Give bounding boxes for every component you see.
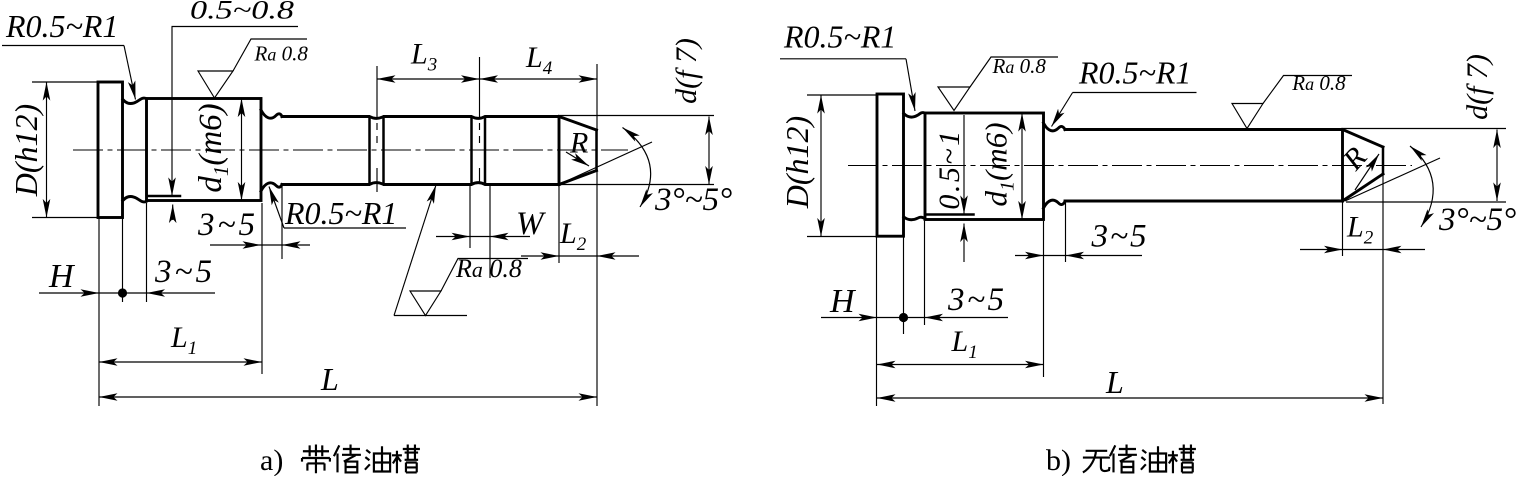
R0.5~R1 middle underline (a)	[284, 227, 406, 229]
R leader arrow (a)	[566, 152, 589, 166]
surface finish symbol Ra0.8 on d1 (b)	[938, 87, 970, 111]
svg-text:b): b)	[1046, 444, 1071, 476]
hanzi cao	[1168, 445, 1196, 474]
relief neck d1/shaft top curve (a)	[261, 110, 282, 118]
svg-text:Ra 0.8: Ra 0.8	[455, 254, 522, 283]
R0.5~R1 underline (b)	[780, 58, 906, 60]
0.5~1 upper arrow line (b)	[963, 115, 965, 214]
hanzi you	[365, 446, 390, 471]
dimension W extension lines (a)	[469, 186, 471, 248]
hanzi chu	[1110, 445, 1137, 473]
svg-text:0.5~1: 0.5~1	[933, 128, 966, 209]
dimension d1 line (a)	[241, 99, 243, 201]
0.5~0.8 lower arrow (a)	[172, 205, 174, 221]
dimension d(f7) line (a)	[708, 117, 710, 185]
svg-text:H: H	[829, 283, 857, 320]
oil groove root line (a)	[148, 195, 181, 198]
svg-text:R0.5~R1: R0.5~R1	[783, 19, 896, 55]
svg-text:L: L	[1105, 364, 1124, 400]
dimension 3~5 at d1/shaft neck (a)	[210, 244, 261, 246]
svg-text:3°~5°: 3°~5°	[1438, 202, 1516, 238]
chamfer start edge (b)	[1341, 130, 1344, 202]
hanzi chu	[334, 445, 361, 473]
dimension D(h12) extension lines (b)	[807, 94, 876, 96]
relief neck d1/shaft bottom curve (b)	[1044, 200, 1066, 208]
R0.5~R1 right leader arrow (b)	[1052, 93, 1073, 127]
dimension d(f7) line (b)	[1496, 130, 1498, 202]
d(f7) top extension line (a)	[559, 115, 714, 117]
0.5~0.8 reference line (a)	[172, 26, 299, 28]
dimension L2 arrows (b)	[1300, 249, 1343, 251]
svg-text:3~5: 3~5	[154, 254, 212, 290]
chamfer end face (b)	[1382, 147, 1385, 174]
chamfer angle arc (a)	[623, 128, 651, 208]
relief neck head/d1 top curve (a)	[123, 98, 147, 103]
R0.5~R1 middle leader arrow (a)	[269, 187, 284, 229]
dimension L3 (a)	[377, 78, 480, 80]
extension line d1-right (b)	[1043, 221, 1045, 377]
d(f7) top extension line (b)	[1343, 128, 1507, 130]
svg-text:D(h12): D(h12)	[8, 104, 44, 197]
hanzi dai	[302, 445, 330, 474]
caption hanzi wu-chu-you-cao (b)	[1083, 445, 1196, 474]
svg-text:D(h12): D(h12)	[779, 116, 815, 209]
extension line head-left (b)	[876, 237, 878, 406]
pin head (a)	[98, 82, 123, 218]
dimension 3~5 arrow at head neck (a)	[147, 292, 216, 294]
extension line groove2 center (a)	[479, 57, 481, 119]
svg-text:Ra 0.8: Ra 0.8	[254, 42, 309, 66]
dimension L4 (a)	[480, 78, 598, 80]
relief neck head/d1 top curve (b)	[904, 113, 925, 117]
0.5~1 lower arrow (b)	[963, 224, 965, 263]
R leader arrow (b)	[1355, 154, 1379, 190]
H measurement dot (b)	[899, 313, 908, 322]
extension line chamfer-start (b)	[1342, 202, 1344, 256]
chamfer top slant (a)	[559, 117, 597, 131]
R0.5~R1 leader arrow (a)	[124, 46, 136, 100]
svg-text:a): a)	[260, 444, 283, 476]
dimension 3~5 at d1/shaft neck (b)	[1015, 255, 1044, 257]
svg-text:L: L	[320, 361, 339, 397]
dimension D(h12) line (b)	[820, 95, 822, 237]
chamfer angle construction line (a)	[561, 142, 652, 184]
svg-text:Ra 0.8: Ra 0.8	[992, 54, 1047, 78]
dimension H line and arrow (a)	[39, 292, 99, 294]
relief neck d1/shaft top curve (b)	[1044, 123, 1066, 131]
svg-text:Ra 0.8: Ra 0.8	[1291, 71, 1346, 95]
extension line shaft-start (b)	[1065, 202, 1067, 262]
d(f7) bottom extension line (b)	[1346, 201, 1506, 203]
extension line d1-left (b)	[924, 221, 926, 325]
chamfer start edge (a)	[558, 117, 561, 185]
caption hanzi dai-chu-you-cao (a)	[302, 445, 420, 474]
dimension L1 (a)	[99, 361, 262, 363]
chamfer top slant (b)	[1343, 130, 1384, 148]
svg-text:R: R	[569, 127, 588, 160]
oil storage groove 2 side lines (a)	[470, 118, 473, 184]
H to 3~5 connecting line (b)	[877, 317, 925, 319]
d1 cylinder section (b)	[925, 113, 1044, 220]
L2 connecting line (a)	[559, 255, 597, 257]
extension line shaft-end (b)	[1382, 147, 1384, 404]
svg-text:3~5: 3~5	[1091, 219, 1147, 255]
svg-text:d(f 7): d(f 7)	[670, 38, 703, 104]
svg-text:3~5: 3~5	[197, 207, 255, 243]
dimension D(h12) line (a)	[46, 82, 48, 218]
d1 cylinder section (a)	[147, 99, 262, 201]
svg-text:d(f 7): d(f 7)	[1461, 54, 1494, 120]
extension line chamfer-start (a)	[558, 186, 560, 263]
oil groove root line (b)	[926, 213, 974, 216]
hanzi wu	[1083, 451, 1110, 473]
hanzi you	[1141, 446, 1166, 471]
dimension L (b)	[877, 397, 1383, 399]
dimension L2 arrows (a)	[521, 255, 559, 257]
shaft top edge with groove dips (a)	[282, 117, 559, 119]
svg-text:3°~5°: 3°~5°	[654, 182, 732, 218]
center line (b)	[848, 165, 1412, 167]
0.5~0.8 leader down to groove root (a)	[171, 27, 173, 197]
svg-text:R0.5~R1: R0.5~R1	[1078, 54, 1191, 90]
svg-text:W: W	[516, 206, 546, 242]
svg-text:R0.5~R1: R0.5~R1	[5, 8, 118, 44]
R0.5~R1 leader arrow (b)	[906, 59, 915, 111]
oil storage groove 1 side lines (a)	[368, 118, 371, 184]
dimension L1 (b)	[877, 364, 1044, 366]
extension line d1-left (a)	[146, 203, 148, 302]
chamfer bottom slant (b)	[1343, 174, 1384, 201]
dimension W arrows (a)	[436, 236, 470, 238]
extension line groove1 center (a)	[376, 66, 378, 119]
center line (a)	[73, 149, 628, 151]
extension line head-right (a)	[122, 218, 124, 302]
relief neck head/d1 bottom curve (b)	[904, 217, 925, 220]
svg-text:3~5: 3~5	[947, 282, 1004, 318]
svg-text:0.5~0.8: 0.5~0.8	[190, 0, 294, 25]
dimension 3~5 arrow at head neck (b)	[925, 317, 1009, 319]
svg-text:R0.5~R1: R0.5~R1	[284, 195, 397, 231]
R0.5~R1 right underline (b)	[1073, 92, 1197, 94]
3~5 connecting line (b)	[1044, 255, 1066, 257]
extension line d1-right (a)	[261, 203, 263, 374]
relief neck head/d1 bottom curve (a)	[123, 197, 147, 202]
chamfer angle construction line (b)	[1345, 158, 1440, 201]
dimension H line and arrow (b)	[821, 317, 877, 319]
L2 connecting line (b)	[1343, 249, 1384, 251]
shaft top edge (b)	[1065, 128, 1343, 131]
dimension d1 line (b)	[1021, 113, 1023, 220]
surface finish symbol Ra0.8 on shaft with leader (a)	[394, 185, 436, 316]
relief neck d1/shaft bottom curve (a)	[261, 183, 282, 191]
R0.5~R1 reference underline (a)	[2, 45, 124, 47]
chamfer end face (a)	[595, 130, 598, 171]
3~5 connecting line (a)	[261, 244, 282, 246]
H measurement dot (a)	[118, 288, 127, 297]
surface finish symbol Ra0.8 on shaft (b)	[1232, 104, 1263, 129]
W connecting line (a)	[470, 236, 490, 238]
dimension L (a)	[99, 396, 597, 398]
shaft bottom edge with groove dips (a)	[282, 183, 559, 185]
chamfer angle arc (b)	[1410, 146, 1433, 227]
d(f7) bottom extension line (a)	[559, 184, 714, 186]
svg-text:H: H	[48, 258, 76, 295]
extension line head-left (a)	[98, 218, 100, 406]
svg-text:d1(m6): d1(m6)	[979, 122, 1019, 206]
shaft bottom edge (b)	[1065, 200, 1343, 203]
svg-text:d1(m6): d1(m6)	[193, 103, 233, 192]
hanzi cao	[392, 445, 420, 474]
extension line head-right (b)	[903, 237, 905, 334]
extension line shaft-end (a)	[596, 64, 598, 406]
pin head (b)	[877, 94, 904, 236]
dimension D(h12) extension lines (a)	[32, 81, 98, 83]
H to 3~5 connecting line (a)	[99, 292, 147, 294]
extension line shaft-start (a)	[281, 186, 283, 259]
surface finish symbol Ra0.8 on d1 (a)	[198, 71, 233, 98]
chamfer bottom slant (a)	[559, 171, 597, 185]
